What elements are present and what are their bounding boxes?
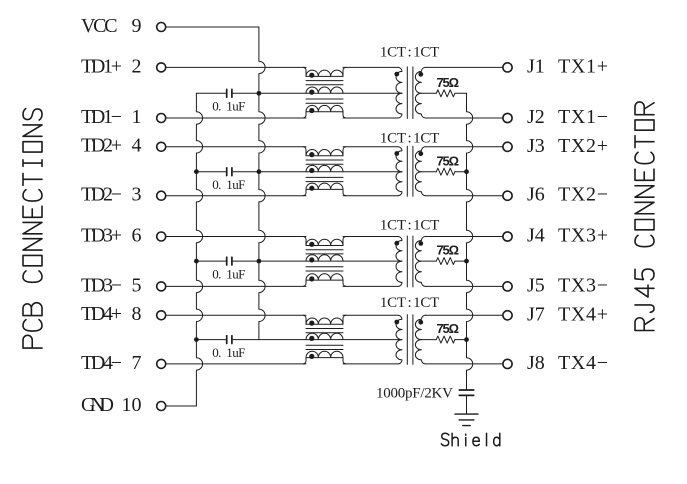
svg-text:1CT: 1CT	[380, 131, 406, 147]
svg-text:TX4−: TX4−	[558, 352, 608, 374]
svg-text:TD2+: TD2+	[81, 135, 122, 157]
svg-text:J6: J6	[527, 184, 545, 206]
svg-text:TD2−: TD2−	[81, 184, 122, 206]
svg-text:75Ω: 75Ω	[437, 243, 460, 258]
svg-text:TD1−: TD1−	[81, 106, 122, 128]
svg-text:5: 5	[132, 274, 142, 296]
svg-text:6: 6	[132, 224, 142, 246]
svg-text:TX3−: TX3−	[558, 274, 608, 296]
svg-text:VCC: VCC	[81, 15, 118, 37]
svg-text:TX3+: TX3+	[558, 225, 608, 247]
svg-text:0. 1uF: 0. 1uF	[212, 177, 245, 192]
svg-text:J3: J3	[527, 135, 545, 157]
svg-text:1CT: 1CT	[380, 218, 406, 234]
svg-text:7: 7	[132, 352, 142, 374]
svg-text:GND: GND	[81, 394, 114, 416]
svg-text:TD4−: TD4−	[81, 352, 122, 374]
svg-text:0. 1uF: 0. 1uF	[212, 266, 245, 281]
svg-text:TD3−: TD3−	[81, 274, 122, 296]
svg-text:10: 10	[122, 394, 142, 416]
svg-text:TX1+: TX1+	[558, 55, 608, 77]
svg-text::: :	[408, 45, 412, 61]
svg-text:TD3+: TD3+	[81, 224, 122, 246]
svg-text:1CT: 1CT	[413, 131, 439, 147]
svg-text:TX2+: TX2+	[558, 135, 608, 157]
svg-text:TD4+: TD4+	[81, 303, 122, 325]
svg-text::: :	[408, 295, 412, 311]
svg-text:J7: J7	[527, 303, 545, 325]
svg-text:1: 1	[132, 106, 142, 128]
svg-text:3: 3	[132, 184, 142, 206]
svg-text:TX2−: TX2−	[558, 184, 608, 206]
svg-text:75Ω: 75Ω	[437, 321, 460, 336]
svg-text:J1: J1	[527, 55, 545, 77]
svg-text:TX1−: TX1−	[558, 106, 608, 128]
svg-text:1CT: 1CT	[380, 45, 406, 61]
svg-text:1CT: 1CT	[380, 295, 406, 311]
svg-text:2: 2	[132, 55, 142, 77]
svg-text:75Ω: 75Ω	[437, 153, 460, 168]
svg-text:TD1+: TD1+	[81, 55, 122, 77]
svg-text::: :	[408, 131, 412, 147]
svg-text:8: 8	[132, 303, 142, 325]
svg-text::: :	[408, 218, 412, 234]
svg-text:9: 9	[132, 15, 142, 37]
svg-text:J5: J5	[527, 274, 545, 296]
svg-text:1CT: 1CT	[413, 295, 439, 311]
svg-text:J2: J2	[527, 106, 545, 128]
svg-text:0. 1uF: 0. 1uF	[212, 345, 245, 360]
svg-text:1CT: 1CT	[413, 45, 439, 61]
svg-text:0. 1uF: 0. 1uF	[212, 99, 245, 114]
svg-text:75Ω: 75Ω	[437, 75, 460, 90]
svg-text:J4: J4	[527, 225, 545, 247]
svg-text:TX4+: TX4+	[558, 303, 608, 325]
svg-text:1000pF/2KV: 1000pF/2KV	[376, 385, 453, 401]
svg-text:4: 4	[132, 135, 142, 157]
svg-text:J8: J8	[527, 352, 545, 374]
svg-text:1CT: 1CT	[413, 218, 439, 234]
